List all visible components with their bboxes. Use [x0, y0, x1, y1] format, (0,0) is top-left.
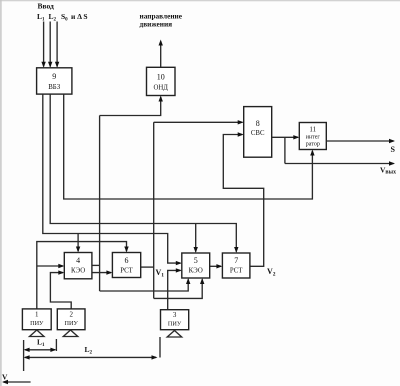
- wire block 6 output to long vertical: [141, 266, 154, 268]
- svg-text:11: 11: [309, 126, 316, 134]
- antenna triangle 1: [30, 330, 45, 337]
- block 11 интегратор: [299, 123, 326, 150]
- wire bus C from block 9 to block 5 upper left: [43, 94, 182, 265]
- wire bus A from block 9 to block 11 bottom: [64, 94, 315, 199]
- block 5 КЭО: [182, 253, 210, 278]
- dimension arrow L2: [24, 355, 158, 359]
- svg-text:S: S: [391, 145, 396, 154]
- wire riser top to block 10 bottom: [100, 96, 163, 116]
- wire input 2 into block 9: [48, 22, 52, 68]
- wire arrow up from block 10: [159, 40, 163, 68]
- wire input 3 into block 9: [55, 22, 59, 68]
- block 3 ПИУ: [161, 310, 189, 330]
- wire riser bottom to block 5 bottom left: [100, 278, 191, 291]
- wire block 4 to block 6: [92, 270, 113, 274]
- dimension tick middle: [55, 339, 57, 351]
- svg-text:и Δ S: и Δ S: [71, 12, 88, 21]
- svg-text:КЭО: КЭО: [189, 268, 203, 275]
- wire long vertical V1: [153, 122, 155, 298]
- svg-text:интег: интег: [306, 135, 321, 141]
- wire block 8 to block 11: [272, 135, 300, 139]
- wire Vvyh output: [285, 161, 395, 165]
- svg-text:РСТ: РСТ: [230, 268, 243, 275]
- svg-text:ОНД: ОНД: [153, 85, 168, 92]
- block 10 ОНД: [147, 67, 176, 95]
- svg-text:6: 6: [125, 256, 129, 265]
- svg-text:7: 7: [234, 256, 238, 265]
- svg-text:4: 4: [76, 256, 80, 265]
- wire block 2 to block 4 lower left: [50, 270, 71, 309]
- wire input 1 into block 9: [41, 22, 45, 68]
- wire V1 to block 8 upper input: [154, 120, 244, 124]
- svg-text:ПИУ: ПИУ: [30, 320, 44, 327]
- block 7 РСТ: [222, 253, 250, 278]
- svg-text:Ввод: Ввод: [38, 2, 55, 11]
- wire Vvyh branch down: [284, 137, 286, 163]
- svg-text:ПИУ: ПИУ: [65, 320, 79, 327]
- wire block 3 riser to block 5 lower left: [168, 268, 182, 310]
- svg-text:ПИУ: ПИУ: [168, 321, 182, 328]
- block 9 ВБЗ: [37, 68, 72, 94]
- wire V2 from block 7 to block 8 lower input: [223, 132, 263, 266]
- svg-text:1: 1: [35, 311, 39, 319]
- block 4 КЭО: [64, 253, 92, 279]
- wire bus B from block 9 to block 7 top: [50, 94, 238, 253]
- svg-text:10: 10: [157, 73, 165, 82]
- svg-text:движения: движения: [140, 20, 173, 29]
- svg-text:2: 2: [69, 311, 73, 319]
- svg-text:8: 8: [256, 119, 260, 128]
- dimension tick left: [23, 340, 25, 371]
- block 8 СВС: [244, 107, 272, 158]
- svg-text:КЭО: КЭО: [71, 268, 85, 275]
- dimension tick right: [159, 337, 161, 358]
- wire stub block 1 to block 4 upper left: [37, 264, 65, 268]
- wire bus D from block 1 to block 6 top: [37, 242, 129, 309]
- svg-text:ратор: ратор: [306, 142, 320, 148]
- antenna triangle 3: [167, 331, 182, 338]
- wire riser x99: [99, 116, 101, 292]
- svg-text:ВБЗ: ВБЗ: [48, 84, 60, 91]
- velocity arrow V: [2, 380, 31, 384]
- block 1 ПИУ: [22, 309, 51, 330]
- svg-text:3: 3: [173, 311, 177, 319]
- wire block 4 output to riser: [92, 264, 100, 266]
- scan edge left: [0, 0, 2, 386]
- dimension arrow L1: [24, 348, 57, 352]
- wire bus B drop to block 5 top: [194, 224, 198, 254]
- scan edge top: [0, 0, 400, 2]
- wire bus C drop to block 4 top: [76, 234, 80, 253]
- svg-text:5: 5: [194, 256, 198, 265]
- wire S output from block 11: [326, 139, 395, 143]
- block 6 РСТ: [112, 253, 140, 278]
- wire block 5 to block 7: [210, 264, 223, 268]
- block 2 ПИУ: [57, 309, 85, 330]
- wire V1 bottom to block 5 bottom right: [154, 278, 205, 298]
- svg-text:СВС: СВС: [251, 130, 265, 137]
- svg-text:РСТ: РСТ: [120, 268, 133, 275]
- antenna triangle 2: [63, 330, 78, 337]
- svg-text:9: 9: [52, 72, 56, 81]
